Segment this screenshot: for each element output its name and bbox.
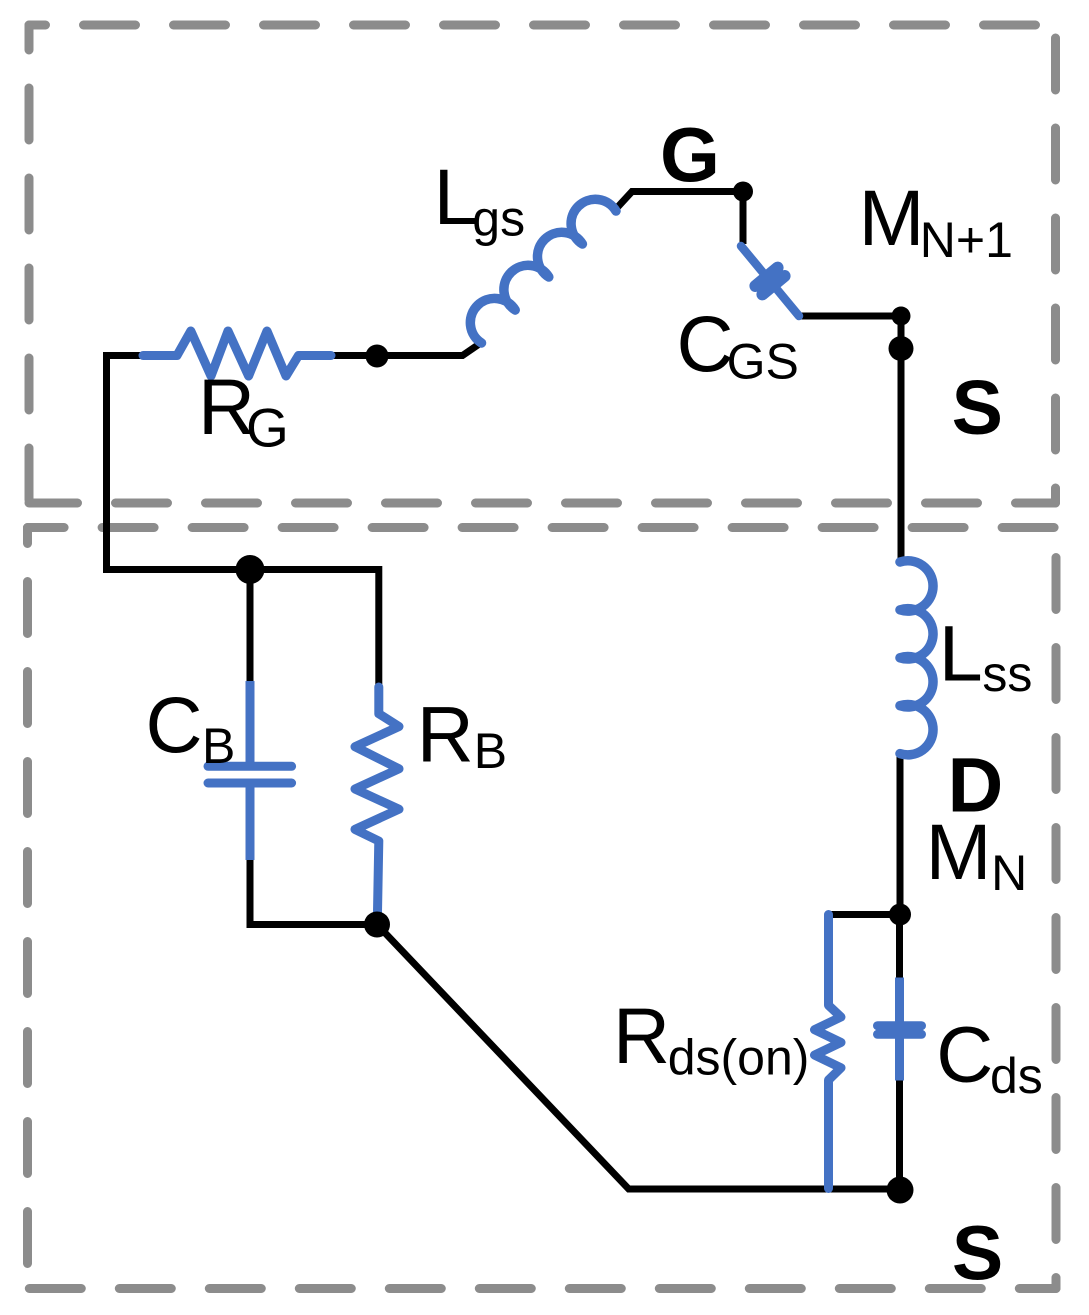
- svg-text:gs: gs: [472, 191, 525, 247]
- svg-text:M: M: [859, 173, 925, 262]
- wire: drain junction to R_ds branch top: [828, 911, 901, 918]
- capacitor C_GS (diagonal): [741, 246, 799, 316]
- capacitor C_ds: [878, 978, 922, 1081]
- dashed box: MOSFET region (bottom): [28, 528, 1057, 1289]
- svg-text:ss: ss: [982, 646, 1032, 702]
- svg-text:L: L: [434, 152, 478, 241]
- svg-text:L: L: [939, 609, 983, 698]
- node: junction dot after R_G: [366, 345, 389, 368]
- svg-text:R: R: [417, 689, 474, 778]
- dashed box: gate driver region (top): [29, 25, 1056, 503]
- svg-text:N+1: N+1: [920, 212, 1013, 268]
- wire: R_G right to L_gs bottom: [329, 344, 480, 356]
- resistor R_B: [355, 687, 399, 923]
- node S (top) dot: [889, 336, 914, 361]
- svg-text:C: C: [677, 299, 734, 388]
- wire: bottom source run and diagonal up to body junction: [377, 925, 900, 1190]
- svg-text:S: S: [952, 1211, 1003, 1297]
- wire: L_ss bottom to drain junction: [897, 754, 904, 915]
- node G dot: [733, 182, 753, 202]
- wire: node G stub down to C_GS: [740, 192, 747, 245]
- svg-text:C: C: [146, 680, 203, 769]
- svg-text:ds: ds: [990, 1048, 1043, 1104]
- node: M_N+1 source corner dot: [892, 307, 911, 326]
- wire: C_B top lead: [247, 570, 254, 686]
- wire: C_GS bottom to node S of M_N+1 and down to L_ss: [800, 316, 901, 562]
- node D junction dot: [889, 904, 911, 926]
- svg-text:GS: GS: [727, 334, 799, 390]
- svg-text:B: B: [202, 718, 235, 774]
- wire: left loop from R_G left lead down and across to R_B top: [107, 356, 379, 688]
- node: body branch top junction dot: [236, 555, 265, 584]
- svg-text:ds(on): ds(on): [668, 1030, 810, 1086]
- wire: C_B bottom lead and across to body junction: [250, 854, 377, 925]
- node S (bottom) dot: [887, 1177, 914, 1204]
- resistor R_ds(on): [815, 915, 842, 1189]
- svg-text:G: G: [660, 113, 720, 199]
- resistor R_G: [143, 331, 331, 376]
- svg-text:G: G: [246, 397, 289, 459]
- svg-text:S: S: [952, 365, 1003, 451]
- inductor L_gs: [470, 199, 616, 343]
- svg-text:N: N: [991, 845, 1027, 901]
- wire: main vertical through C_ds down to source node: [896, 915, 903, 1191]
- svg-text:M: M: [926, 807, 992, 896]
- svg-text:C: C: [936, 1010, 993, 1099]
- capacitor C_B: [208, 681, 292, 860]
- node: body branch bottom junction dot: [364, 912, 390, 938]
- svg-text:B: B: [474, 723, 507, 779]
- inductor L_ss: [900, 561, 933, 755]
- svg-text:R: R: [613, 991, 670, 1080]
- wire: L_gs top to node G: [615, 192, 744, 211]
